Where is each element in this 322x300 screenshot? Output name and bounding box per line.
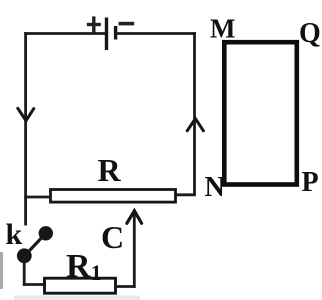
frame MNPQ rectangle [224,42,296,184]
slider C arrowhead [127,211,142,224]
wire top horizontal right of battery [116,32,196,35]
scan artifact bottom smudge [14,296,140,300]
resistor R body [51,190,176,203]
wire from switch down to bottom wire [23,256,26,286]
battery B long plate (+) [105,18,108,51]
battery B short plate (-) [114,26,117,40]
wire bottom horizontal right of R1 [116,285,136,288]
resistor R1 body [45,278,116,293]
svg-text:M: M [210,14,235,44]
battery minus sign [119,22,135,26]
wire from resistor R right end to right vertical [174,193,196,196]
switch K upper contact dot [39,226,53,240]
wire from left vertical to resistor R left end [24,196,51,199]
wire right vertical [193,32,196,195]
wire top horizontal left of battery [24,32,106,35]
scan artifact left edge [0,252,3,289]
svg-text:N: N [205,172,225,203]
svg-text:k: k [6,218,23,251]
switch K lever [25,233,46,256]
wire bottom horizontal left of R1 [23,283,45,286]
current arrow up on right wire [187,119,203,131]
current arrow down on left wire [18,108,34,120]
slider C wire vertical with arrow to R [133,212,136,288]
wire left vertical [24,32,27,225]
svg-text:P: P [302,167,319,198]
svg-text:R: R [98,152,122,188]
battery plus sign [87,16,101,32]
switch K lower pivot dot [17,248,32,263]
svg-text:C: C [101,219,124,255]
svg-text:R1: R1 [66,248,102,285]
svg-text:Q: Q [299,18,321,49]
